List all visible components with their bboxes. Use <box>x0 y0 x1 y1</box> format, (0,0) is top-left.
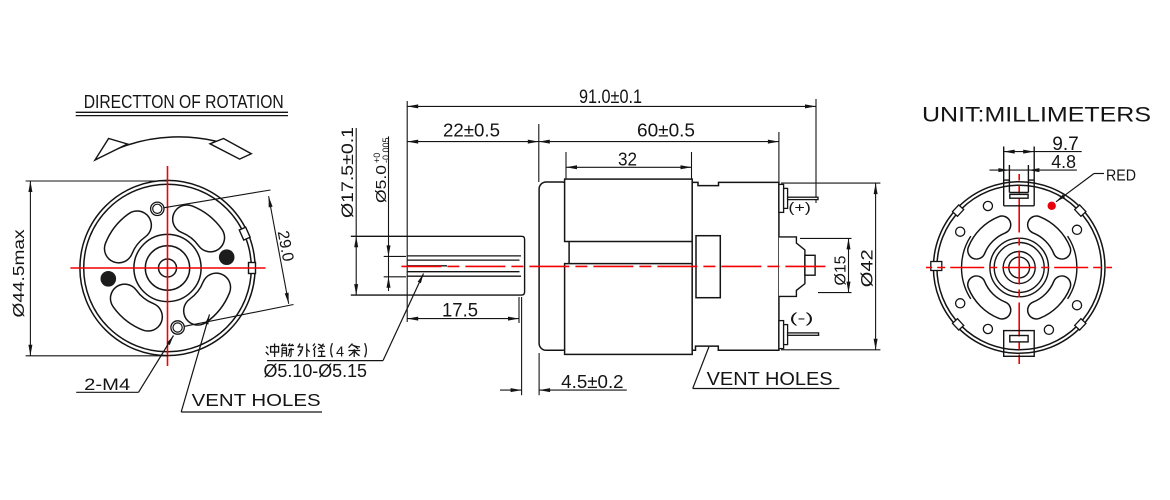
svg-text:4: 4 <box>336 345 344 361</box>
svg-text:-0.005: -0.005 <box>381 137 391 163</box>
svg-text:UNIT:MILLIMETERS: UNIT:MILLIMETERS <box>922 102 1151 126</box>
svg-text:DIRECTTON OF ROTATION: DIRECTTON OF ROTATION <box>84 92 284 112</box>
svg-text:17.5: 17.5 <box>442 301 478 322</box>
svg-text:91.0±0.1: 91.0±0.1 <box>579 87 642 108</box>
svg-text:VENT HOLES: VENT HOLES <box>707 368 833 389</box>
svg-text:Ø44.5max: Ø44.5max <box>11 230 28 318</box>
svg-text:Ø5.10-Ø5.15: Ø5.10-Ø5.15 <box>264 361 368 381</box>
svg-text:RED: RED <box>1106 168 1136 185</box>
svg-text:Ø5.0: Ø5.0 <box>373 165 390 203</box>
svg-text:4.5±0.2: 4.5±0.2 <box>561 372 623 392</box>
svg-text:(+): (+) <box>788 200 810 215</box>
svg-text:32: 32 <box>618 150 637 170</box>
svg-text:2-M4: 2-M4 <box>84 375 130 394</box>
svg-text:Ø17.5±0.1: Ø17.5±0.1 <box>338 127 357 218</box>
svg-text:4.8: 4.8 <box>1051 152 1076 172</box>
svg-text:Ø42: Ø42 <box>859 249 877 287</box>
svg-text:60±0.5: 60±0.5 <box>637 121 695 141</box>
svg-text:Ø15: Ø15 <box>833 255 850 285</box>
svg-text:(-): (-) <box>790 311 814 326</box>
svg-text:VENT HOLES: VENT HOLES <box>192 390 321 410</box>
svg-text:22±0.5: 22±0.5 <box>443 121 500 141</box>
